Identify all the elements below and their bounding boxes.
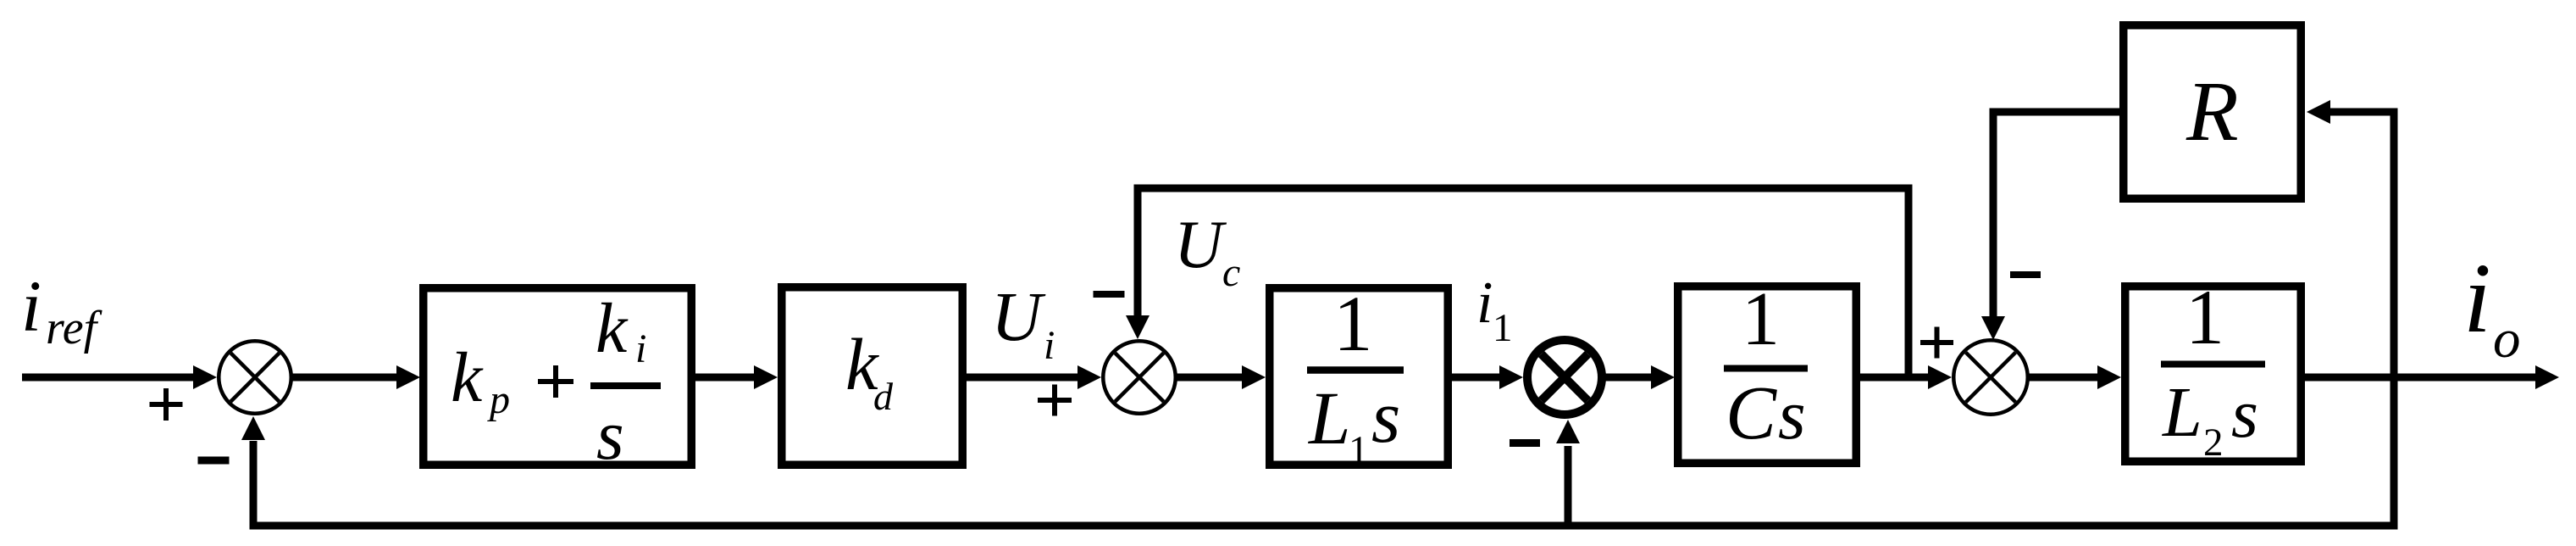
svg-text:ref: ref — [46, 302, 103, 354]
svg-text:s: s — [2231, 375, 2258, 452]
svg-text:i: i — [21, 265, 42, 347]
wire: bottom feedback branch up into S3 — [1565, 446, 1572, 522]
svg-text:k: k — [451, 338, 484, 417]
block R — [2124, 25, 2302, 199]
svg-text:R: R — [2185, 64, 2239, 159]
wire: S4 to L2 block — [2029, 374, 2100, 382]
fraction bar of Cs block — [1724, 365, 1808, 372]
fraction bar ki/s — [590, 382, 661, 389]
wire: L1 block to summing junction S3 — [1451, 374, 1501, 382]
svg-text:i: i — [1476, 270, 1493, 336]
svg-text:2: 2 — [2203, 421, 2224, 465]
block 1/Cs — [1678, 287, 1857, 464]
svg-text:1: 1 — [1742, 277, 1780, 361]
wire: io feedback up into R input — [2390, 112, 2398, 377]
svg-text:c: c — [1222, 250, 1240, 295]
svg-text:1: 1 — [1493, 306, 1513, 350]
svg-text:s: s — [1778, 376, 1806, 454]
label plus in PI block — [538, 379, 573, 384]
wire: io bottom feedback down, left, up into S1 — [2390, 377, 2398, 530]
svg-text:i: i — [635, 326, 646, 371]
wire: Cs block to summing junction S4 — [1859, 374, 1930, 382]
wire: R block output down into S4 — [1997, 109, 2121, 116]
wire: input iref line — [22, 374, 195, 382]
label minus at S4 top — [2010, 271, 2041, 278]
wire: S2 to L1 block — [1177, 374, 1244, 382]
label minus below S1 — [198, 457, 230, 465]
block kd — [782, 287, 963, 465]
svg-text:U: U — [991, 277, 1046, 355]
block 1/L2s — [2125, 287, 2302, 462]
svg-text:L: L — [2162, 373, 2202, 452]
svg-text:d: d — [873, 375, 894, 418]
svg-text:i: i — [2463, 242, 2491, 354]
wire: Uc feedback from Cs output node up and left into S2 — [1905, 185, 1913, 377]
summing junction S3 (bold) — [1527, 340, 1602, 415]
wire: output line with junction — [2304, 374, 2535, 382]
fraction bar of L1 block — [1307, 366, 1404, 374]
wire: kd block to summing junction S2 — [966, 374, 1079, 382]
summing junction S1 — [219, 341, 291, 414]
svg-text:1: 1 — [2185, 274, 2224, 360]
label plus at S2 — [1038, 398, 1072, 403]
fraction bar of L2 block — [2161, 361, 2265, 368]
summing junction S2 — [1103, 341, 1176, 414]
svg-text:L: L — [1307, 377, 1351, 460]
svg-text:1: 1 — [1333, 281, 1373, 368]
block PI controller kp+ki/s — [424, 288, 692, 465]
svg-text:C: C — [1726, 371, 1777, 455]
wire: S1 to PI block — [291, 374, 399, 382]
label plus at S4 — [1920, 340, 1953, 345]
wire: PI block to kd block — [695, 374, 756, 382]
label minus below-left of S3 — [1510, 439, 1540, 447]
label minus at S2 top — [1094, 291, 1125, 298]
svg-text:i: i — [1044, 323, 1055, 368]
wire: S3 to Cs block — [1604, 374, 1653, 382]
label plus at summing junction S1 — [150, 402, 183, 407]
block 1/L1s — [1270, 288, 1449, 465]
summing junction S4 — [1953, 340, 2028, 415]
svg-text:s: s — [596, 396, 624, 475]
svg-text:U: U — [1174, 208, 1227, 282]
svg-text:s: s — [1371, 376, 1400, 459]
svg-text:p: p — [487, 377, 510, 422]
svg-text:o: o — [2493, 309, 2521, 370]
svg-text:k: k — [596, 289, 629, 368]
svg-text:1: 1 — [1349, 428, 1369, 472]
